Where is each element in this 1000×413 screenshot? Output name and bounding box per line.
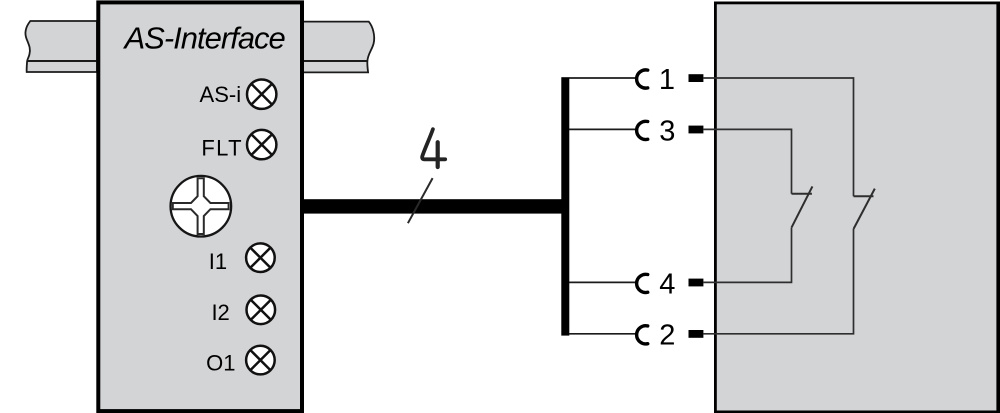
right box (actuator) xyxy=(715,3,1000,412)
svg-text:AS-Interface: AS-Interface xyxy=(123,21,286,56)
LED AS-i xyxy=(247,80,276,109)
junction bar xyxy=(561,77,569,335)
contact socket 1 xyxy=(637,70,648,88)
AS-i flat cable right segment xyxy=(303,22,374,73)
contact socket 3 xyxy=(637,121,648,139)
svg-text:1: 1 xyxy=(659,64,675,96)
terminal square 4 xyxy=(689,279,704,287)
AS-i flat cable left segment xyxy=(25,21,97,72)
svg-text:O1: O1 xyxy=(206,350,235,375)
wire node1 to contact xyxy=(569,77,636,79)
svg-text:3: 3 xyxy=(659,115,675,147)
switch S1 (NO contact) xyxy=(792,186,813,227)
conductor count slash xyxy=(408,178,433,223)
LED O1 xyxy=(246,346,275,375)
addressing socket (phillips screw head) xyxy=(171,176,232,237)
contact socket 2 xyxy=(637,326,648,344)
svg-text:2: 2 xyxy=(659,320,675,352)
svg-text:I1: I1 xyxy=(209,249,227,274)
terminal square 1 xyxy=(689,74,704,82)
svg-text:4: 4 xyxy=(659,268,675,300)
cable W1 (4 conductors, thick) xyxy=(302,199,562,213)
wire contact4 to switch S1 bottom xyxy=(703,228,791,283)
terminal square 2 xyxy=(689,330,704,338)
svg-text:FLT: FLT xyxy=(201,136,243,161)
switch S2 (NO contact) xyxy=(854,189,875,229)
wire node2 to contact xyxy=(569,333,636,335)
svg-text:AS-i: AS-i xyxy=(200,82,242,107)
contact socket 4 xyxy=(637,274,648,292)
terminal square 3 xyxy=(689,126,704,134)
LED I2 xyxy=(246,296,275,325)
wire contact1 to switch S2 top xyxy=(703,78,853,196)
wire node3 to contact xyxy=(569,128,636,130)
module box AS-Interface xyxy=(98,2,302,411)
wire contact3 to switch S1 top xyxy=(703,129,791,193)
svg-text:I2: I2 xyxy=(211,300,229,325)
conductor count label 4 xyxy=(422,129,445,167)
wire contact2 to switch S2 bottom xyxy=(703,229,853,334)
LED FLT xyxy=(247,130,276,159)
wire node4 to contact xyxy=(569,281,636,283)
LED I1 xyxy=(246,243,275,272)
